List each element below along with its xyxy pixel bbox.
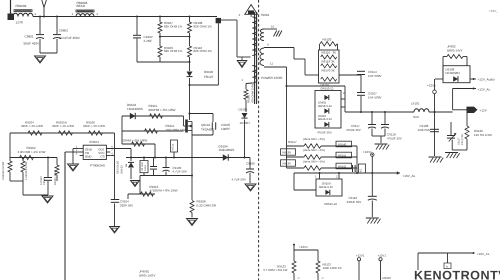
svg-text:IC9101: IC9101 xyxy=(89,140,99,144)
svg-text:G94-Z2: G94-Z2 xyxy=(120,165,123,174)
svg-text:82K OHM 1%: 82K OHM 1% xyxy=(164,49,183,53)
svg-text:BR85 14VY: BR85 14VY xyxy=(447,48,463,52)
svg-text:100PF: 100PF xyxy=(221,127,230,131)
svg-text:330K +-1% 1/4W: 330K +-1% 1/4W xyxy=(52,124,74,128)
svg-text:+16V_: +16V_ xyxy=(489,9,498,13)
svg-text:D9105: D9105 xyxy=(239,108,248,112)
svg-text:+12V_AL: +12V_AL xyxy=(478,87,491,91)
svg-text:4D: 4D xyxy=(359,169,362,172)
svg-text:1N4148WS: 1N4148WS xyxy=(219,148,235,152)
svg-text:1NF 500V: 1NF 500V xyxy=(368,96,382,100)
svg-text:82K OHM 1%: 82K OHM 1% xyxy=(194,49,213,53)
svg-text:470UF 25V: 470UF 25V xyxy=(317,131,332,135)
svg-text:11: 11 xyxy=(270,62,273,66)
svg-text:4.7UF 50V: 4.7UF 50V xyxy=(173,170,187,174)
svg-text:330K +-1% 1/4W: 330K +-1% 1/4W xyxy=(21,124,43,128)
svg-text:68OHM +-5% 1/6W: 68OHM +-5% 1/6W xyxy=(149,108,176,112)
svg-text:4.7UF 50V: 4.7UF 50V xyxy=(232,178,246,182)
svg-text:+12V_Audio: +12V_Audio xyxy=(478,78,495,82)
svg-text:+16V_AL: +16V_AL xyxy=(403,174,416,178)
svg-text:C9801: C9801 xyxy=(25,34,34,38)
svg-text:R9170 3K: R9170 3K xyxy=(322,69,335,73)
svg-text:KENOTRONTV: KENOTRONTV xyxy=(414,269,500,280)
svg-text:330K +-1% 1/4W: 330K +-1% 1/4W xyxy=(83,124,105,128)
svg-text:1N2 (74E): 1N2 (74E) xyxy=(461,133,464,145)
svg-text:56UF 450V: 56UF 450V xyxy=(24,42,41,46)
svg-text:2.2NF: 2.2NF xyxy=(144,39,153,43)
svg-text:R9141: R9141 xyxy=(338,153,347,157)
svg-text:NC/BR204: NC/BR204 xyxy=(446,71,461,75)
svg-text:R9117: R9117 xyxy=(288,140,297,144)
svg-text:R9138: R9138 xyxy=(283,151,292,155)
svg-text:T9901: T9901 xyxy=(261,13,270,17)
svg-text:GR58-9-22: GR58-9-22 xyxy=(318,104,332,108)
svg-text:NC/47UF 450V: NC/47UF 450V xyxy=(59,36,81,40)
svg-text:+12V1: +12V1 xyxy=(378,253,387,257)
svg-text:3.9KOHM +-1% 1/4W: 3.9KOHM +-1% 1/4W xyxy=(18,150,46,154)
svg-text:GR510-22: GR510-22 xyxy=(321,86,334,90)
svg-text:BND: BND xyxy=(85,155,92,159)
svg-text:1M 50V: 1M 50V xyxy=(40,176,43,185)
svg-text:GR44-9-22: GR44-9-22 xyxy=(318,117,332,121)
svg-text:10: 10 xyxy=(271,25,275,29)
svg-text:R9140: R9140 xyxy=(338,142,347,146)
svg-text:R9101 100K: R9101 100K xyxy=(54,170,57,185)
svg-text:12K 5% 1/4W: 12K 5% 1/4W xyxy=(474,133,492,137)
svg-text:470UF 25V: 470UF 25V xyxy=(346,128,361,132)
svg-text:SR516-22: SR516-22 xyxy=(324,202,337,206)
svg-text:220P 50V: 220P 50V xyxy=(120,204,133,208)
svg-text:POWER XFMR: POWER XFMR xyxy=(261,76,283,80)
svg-text:R9116: R9116 xyxy=(322,51,331,55)
svg-text:PT8063AG: PT8063AG xyxy=(90,164,106,168)
svg-text:CS: CS xyxy=(100,155,104,159)
svg-text:+12V1: +12V1 xyxy=(299,245,308,249)
svg-text:3K: 3K xyxy=(333,51,337,55)
svg-text:100N 50V: 100N 50V xyxy=(418,128,431,132)
svg-text:330UF 56V: 330UF 56V xyxy=(347,200,362,204)
svg-text:(Idera 5KN +-5%): (Idera 5KN +-5%) xyxy=(303,159,325,163)
svg-text:R9142: R9142 xyxy=(338,164,347,168)
svg-text:+16V_AL: +16V_AL xyxy=(477,252,490,256)
svg-text:C9101: C9101 xyxy=(43,177,46,185)
svg-text:R9119 3K: R9119 3K xyxy=(322,60,335,64)
svg-text:+12V1: +12V1 xyxy=(356,253,365,257)
svg-text:D9106: D9106 xyxy=(204,70,213,74)
svg-text:(Idera 5KN +-5%): (Idera 5KN +-5%) xyxy=(303,137,325,141)
svg-text:1.2KOHM 1/4W: 1.2KOHM 1/4W xyxy=(25,161,28,180)
svg-text:1N4148WS: 1N4148WS xyxy=(127,107,143,111)
svg-text:3.9KOHM 1/4W: 3.9KOHM 1/4W xyxy=(2,161,5,180)
svg-text:0OHM +-5% 1/8W: 0OHM +-5% 1/8W xyxy=(122,139,147,143)
svg-text:3UH: 3UH xyxy=(413,115,419,119)
svg-text:0.33 OHM 2W: 0.33 OHM 2W xyxy=(197,204,217,208)
svg-text:FB9908: FB9908 xyxy=(16,4,27,8)
svg-text:C9106: C9106 xyxy=(246,161,255,165)
svg-text:4.7 OHM +-5% 1W: 4.7 OHM +-5% 1W xyxy=(263,268,288,272)
svg-text:100 OHM 1/8W: 100 OHM 1/8W xyxy=(166,128,187,132)
svg-text:470UF 25V: 470UF 25V xyxy=(387,136,402,140)
svg-text:R9910: R9910 xyxy=(383,276,392,280)
svg-text:1NF 500V: 1NF 500V xyxy=(368,74,382,78)
svg-text:L9101: L9101 xyxy=(411,102,420,106)
svg-text:100K 1/8W 1%: 100K 1/8W 1% xyxy=(323,266,343,270)
svg-text:127R: 127R xyxy=(16,21,24,25)
svg-text:R9139: R9139 xyxy=(283,162,292,166)
svg-text:R9114: R9114 xyxy=(171,143,174,151)
svg-text:+12V: +12V xyxy=(480,108,488,112)
svg-text:DR05 1AGV: DR05 1AGV xyxy=(139,273,156,277)
svg-text:FE4D: FE4D xyxy=(144,165,147,171)
svg-text:47BOHM +-8% 1/6W: 47BOHM +-8% 1/6W xyxy=(150,189,178,193)
svg-text:82K OHM 1%: 82K OHM 1% xyxy=(164,25,183,29)
svg-text:470 OHM 1/4W: 470 OHM 1/4W xyxy=(250,83,254,103)
svg-text:GR49-9-22: GR49-9-22 xyxy=(319,185,333,189)
svg-text:82K OHM 1%: 82K OHM 1% xyxy=(194,25,213,29)
svg-text:+12V1: +12V1 xyxy=(363,150,372,154)
svg-text:2: 2 xyxy=(125,164,127,168)
svg-text:GEN-DL2B: GEN-DL2B xyxy=(117,161,120,174)
svg-text:BEAD: BEAD xyxy=(77,4,86,8)
svg-text:C9802: C9802 xyxy=(59,28,68,32)
svg-text:FR107: FR107 xyxy=(204,75,214,79)
